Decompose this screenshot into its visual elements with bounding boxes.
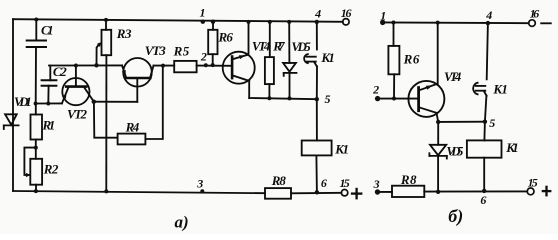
svg-text:VT3: VT3 [145,43,167,58]
svg-text:R4: R4 [125,119,140,134]
svg-text:16: 16 [530,6,540,20]
svg-text:R8: R8 [271,173,287,188]
svg-text:6: 6 [480,193,486,207]
svg-text:15: 15 [340,176,350,190]
svg-text:VT4: VT4 [444,69,462,84]
svg-text:R3: R3 [116,26,132,41]
svg-text:а): а) [175,213,189,232]
svg-text:VD5: VD5 [446,144,464,159]
svg-text:VT2: VT2 [67,107,88,122]
svg-text:VD1: VD1 [14,94,32,109]
svg-text:C1: C1 [41,22,54,37]
svg-text:5: 5 [325,92,331,106]
svg-text:1: 1 [200,6,206,20]
svg-text:R7: R7 [272,38,285,53]
svg-text:3: 3 [196,176,203,190]
svg-text:R8: R8 [400,172,417,187]
svg-text:3: 3 [373,177,380,191]
svg-text:R2: R2 [43,162,59,177]
svg-text:2: 2 [200,50,207,64]
svg-text:16: 16 [341,6,352,20]
svg-text:R6: R6 [403,52,420,67]
svg-text:4: 4 [485,8,492,22]
svg-text:R6: R6 [218,30,234,45]
svg-text:К1: К1 [505,140,519,155]
svg-text:К1: К1 [334,142,349,157]
svg-text:15: 15 [528,176,538,190]
svg-text:R1: R1 [42,117,56,132]
svg-text:R5: R5 [173,43,190,58]
svg-text:К1: К1 [492,81,508,96]
svg-text:2: 2 [372,83,379,97]
svg-text:4: 4 [314,7,321,21]
svg-text:5: 5 [489,116,495,130]
svg-text:К1: К1 [320,50,335,65]
svg-text:VT4: VT4 [252,38,271,53]
svg-text:VD5: VD5 [291,39,311,54]
svg-text:C2: C2 [53,64,67,79]
svg-text:6: 6 [321,176,327,190]
svg-text:б): б) [448,206,463,227]
svg-text:1: 1 [380,8,386,22]
